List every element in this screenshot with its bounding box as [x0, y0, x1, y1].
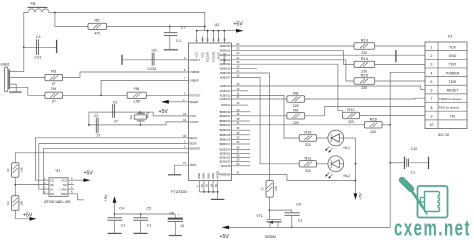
svg-text:BDBUS4: BDBUS4 — [220, 128, 231, 132]
capacitor C3 — [113, 100, 118, 123]
svg-text:ADBUS0: ADBUS0 — [220, 44, 231, 48]
node gnd bus junctions — [203, 191, 205, 193]
node C5 junction — [140, 213, 142, 215]
wire HL1 cathode — [344, 137, 356, 139]
svg-text:3: 3 — [431, 63, 433, 67]
wire C9 branch — [269, 210, 291, 213]
svg-text:220: 220 — [361, 86, 367, 90]
svg-text:9: 9 — [431, 115, 433, 119]
svg-text:C1: C1 — [36, 34, 41, 39]
wire R15 to X1 pin5 — [375, 80, 425, 82]
wire USB GND — [10, 84, 16, 92]
svg-text:R12: R12 — [347, 107, 354, 112]
wire ADBUS7 down to R11 — [235, 78, 299, 164]
resistor R12 — [343, 107, 360, 124]
node +5V vertical junction — [204, 26, 206, 28]
power +5V arrow at RESET — [159, 100, 169, 115]
svg-text:EEDATA: EEDATA — [190, 146, 201, 150]
svg-text:R9: R9 — [293, 108, 298, 113]
svg-text:ACBUS0: ACBUS0 — [220, 84, 231, 88]
wire R11 to HL2 — [317, 163, 328, 165]
ground C4 — [108, 232, 122, 234]
svg-text:C10: C10 — [411, 147, 417, 151]
svg-text:6MHz: 6MHz — [147, 111, 150, 118]
wire junction up to USBDP — [101, 80, 184, 95]
wire BCBUS1 stub — [235, 153, 250, 155]
wire bottom +5V feed — [229, 226, 391, 228]
wire BCBUS3 stub — [235, 161, 250, 163]
svg-text:IDC-10: IDC-10 — [438, 133, 449, 137]
capacitor C8 electrolytic — [168, 212, 185, 236]
svg-text:GND: GND — [197, 173, 201, 179]
svg-text:R6: R6 — [134, 86, 139, 91]
eeprom U1 93C46 — [43, 168, 74, 205]
wire R14 to X1 pin3 — [375, 63, 425, 65]
svg-text:+5V: +5V — [358, 192, 363, 199]
svg-text:ACBUS1: ACBUS1 — [220, 89, 231, 93]
node FB output junction — [54, 12, 56, 14]
wire C4 C5 C8 rail — [115, 213, 176, 215]
node C7 top junction — [169, 26, 171, 28]
node C4 junction — [114, 213, 116, 215]
wire R7 to VT1 gate — [268, 197, 270, 219]
svg-text:220: 220 — [348, 120, 354, 124]
svg-text:RSTOUT: RSTOUT — [190, 93, 201, 97]
capacitor C7 — [164, 25, 186, 50]
svg-text:BDBUS5: BDBUS5 — [220, 133, 231, 137]
wire LED cathode bus down — [354, 138, 356, 194]
svg-text:AT93C46D--8S: AT93C46D--8S — [44, 199, 71, 204]
op-amp U2 FT2232D body — [171, 22, 231, 194]
svg-text:220: 220 — [305, 169, 311, 173]
U2 right pin stubs — [231, 46, 235, 175]
svg-text:GND: GND — [206, 173, 210, 179]
wire junction to U1 pin2 — [15, 184, 49, 186]
connector USB1 — [1, 63, 11, 92]
svg-text:4: 4 — [431, 71, 433, 75]
resistor R14 — [354, 56, 375, 74]
resistor R13 — [354, 38, 375, 56]
svg-text:X1: X1 — [448, 34, 453, 39]
wire BDBUS2 stub — [235, 120, 250, 122]
resistor R7 vertical — [261, 181, 279, 198]
node PWREN junction — [355, 180, 357, 182]
ground U2 — [211, 198, 225, 200]
wire ACBUS2 down to R10 — [235, 95, 299, 138]
node crystal top junction — [139, 111, 141, 113]
svg-text:+5V: +5V — [220, 234, 230, 239]
wire U1 GND jog — [74, 194, 84, 200]
svg-text:27: 27 — [52, 100, 56, 104]
resistor R8 — [287, 91, 305, 109]
svg-text:+5V: +5V — [103, 194, 108, 201]
node VCC-C1 junction — [23, 46, 25, 48]
LED HL1 — [325, 130, 350, 153]
resistor R5 — [88, 18, 107, 36]
svg-text:1: 1 — [431, 45, 433, 49]
svg-text:R4: R4 — [51, 86, 57, 91]
wire SI/WUA stub — [235, 104, 248, 106]
pin numbers U2 left — [183, 56, 186, 165]
wire ADBUS5 stub — [235, 68, 257, 70]
ground TEST — [168, 174, 181, 176]
wire USB VCC vertical to FB — [24, 13, 28, 72]
svg-text:C7: C7 — [181, 25, 186, 30]
svg-text:VT1: VT1 — [256, 214, 262, 218]
svg-text:+5V: +5V — [84, 170, 94, 176]
wire ADBUS2 to X1 pin2 — [235, 54, 425, 56]
svg-text:GND: GND — [61, 192, 67, 196]
svg-text:BDBUS3: BDBUS3 — [220, 123, 231, 127]
wire BDBUS3 to R16 — [235, 124, 364, 126]
svg-text:BDBUS0: BDBUS0 — [220, 110, 231, 114]
svg-text:C3: C3 — [113, 100, 118, 104]
wire ADBUS4 jog to R12 — [235, 64, 342, 112]
wire ADBUS0 to R13 — [235, 45, 354, 47]
svg-text:0.1: 0.1 — [147, 224, 152, 228]
capacitor C5 — [133, 207, 152, 233]
U2 left pin stubs — [185, 60, 189, 165]
svg-text:DI: DI — [50, 188, 53, 192]
svg-text:+5V: +5V — [234, 21, 244, 27]
svg-text:TDO: TDO — [449, 63, 457, 67]
svg-text:BCBUS0: BCBUS0 — [220, 148, 231, 152]
svg-text:C8: C8 — [170, 212, 175, 216]
svg-text:2: 2 — [431, 54, 433, 58]
wire top +5V rail — [49, 13, 205, 31]
svg-text:VCC: VCC — [195, 52, 199, 58]
wire ACBUS3 to R8 — [235, 98, 287, 100]
svg-text:TMS: TMS — [449, 80, 457, 84]
svg-text:TXD(from device): TXD(from device) — [439, 97, 462, 101]
svg-text:0.1: 0.1 — [298, 219, 303, 223]
svg-text:R5: R5 — [95, 18, 100, 23]
capacitor C4 — [108, 207, 126, 233]
wire ACBUS0 to X1 pin6 RESET — [235, 86, 425, 90]
svg-text:BCBUS3: BCBUS3 — [220, 160, 231, 164]
wire BCBUS2 stub — [235, 157, 250, 159]
svg-text:ZQ1: ZQ1 — [130, 114, 133, 119]
svg-text:TEST: TEST — [190, 163, 197, 167]
svg-text:R14: R14 — [361, 56, 369, 61]
node R1 R2 junction — [14, 184, 16, 186]
svg-text:ADBUS4: ADBUS4 — [220, 62, 231, 66]
svg-text:R2: R2 — [6, 201, 10, 205]
svg-text:ADBUS2: ADBUS2 — [220, 53, 231, 57]
wire BDBUS7 stub — [235, 143, 250, 145]
wire BCBUS0 stub — [235, 149, 250, 151]
svg-text:27: 27 — [97, 134, 101, 138]
svg-text:+: + — [178, 212, 180, 216]
svg-text:ADBUS3: ADBUS3 — [220, 58, 231, 62]
wire R13 to X1 pin1 — [375, 45, 425, 47]
svg-text:ADBUS6: ADBUS6 — [220, 71, 231, 75]
svg-text:HL2: HL2 — [344, 174, 350, 178]
svg-text:C2: C2 — [94, 114, 99, 118]
svg-text:R13: R13 — [361, 38, 368, 43]
wire USB D+ to R4 — [10, 87, 45, 95]
svg-text:TCK: TCK — [449, 45, 457, 49]
svg-text:FB: FB — [31, 1, 36, 6]
wire U2 top +5V rail — [197, 30, 237, 32]
wire R8 to X1 pin7 TXD — [305, 97, 425, 100]
wire R5 to +5V node — [107, 25, 205, 27]
connector X1 — [425, 34, 467, 138]
power +5V arrow top — [234, 21, 244, 32]
capacitor C2 — [94, 114, 101, 137]
capacitor C9 — [285, 202, 303, 227]
svg-text:0.1: 0.1 — [176, 39, 181, 43]
svg-text:220: 220 — [305, 143, 311, 147]
svg-text:+5V: +5V — [23, 213, 33, 219]
svg-text:SI/WUA: SI/WUA — [221, 103, 231, 107]
capacitor C10 — [390, 147, 428, 174]
svg-text:VCC: VCC — [201, 52, 205, 58]
resistor R6 — [127, 86, 146, 104]
svg-text:USB1: USB1 — [1, 63, 10, 67]
svg-text:+5V: +5V — [159, 109, 169, 115]
svg-text:10: 10 — [430, 123, 434, 127]
svg-text:POWER: POWER — [446, 71, 460, 75]
pin labels U2 left inside — [190, 58, 201, 167]
svg-text:TDI: TDI — [450, 115, 456, 119]
svg-text:R7: R7 — [261, 186, 265, 190]
wire BDBUS0 stub — [235, 111, 250, 113]
wire ACBUS1 stub — [235, 90, 248, 92]
svg-text:1.5K: 1.5K — [274, 186, 278, 192]
resistor R16 — [364, 117, 382, 134]
svg-text:5: 5 — [431, 80, 433, 84]
svg-text:SI/WUB: SI/WUB — [221, 164, 231, 168]
svg-text:C5: C5 — [147, 207, 152, 211]
wire EESK bus — [39, 144, 185, 190]
wire R6 to RSTOUT — [146, 94, 184, 96]
wire XTOUT row — [89, 122, 185, 125]
svg-text:SK: SK — [50, 183, 54, 187]
svg-text:BSS84: BSS84 — [265, 235, 276, 239]
capacitor C1 — [24, 34, 57, 60]
node crystal bottom junction — [139, 124, 141, 126]
node VT1 gate junction — [269, 209, 271, 211]
node R16 power junction — [389, 124, 391, 126]
wire R3 to USBDM — [63, 72, 185, 78]
svg-text:BDBUS6: BDBUS6 — [220, 137, 231, 141]
wire R2 to +5V arrow — [15, 210, 30, 219]
svg-text:8: 8 — [431, 106, 433, 110]
svg-text:220: 220 — [293, 121, 299, 125]
wire R4 to R6 — [63, 94, 128, 96]
ferrite bead FB label — [28, 1, 48, 7]
crystal ZQ1 — [130, 111, 150, 125]
wire R1 to R2 — [14, 177, 16, 196]
wire USB VCC — [10, 71, 24, 73]
svg-text:R10: R10 — [304, 130, 312, 135]
svg-text:VCCIOB: VCCIOB — [211, 52, 215, 63]
svg-text:R16: R16 — [370, 117, 377, 122]
svg-text:BDBUS2: BDBUS2 — [220, 119, 231, 123]
svg-text:CS: CS — [50, 179, 54, 183]
svg-text:ADBUS7: ADBUS7 — [220, 76, 231, 80]
node VCC stub junctions — [196, 30, 198, 32]
power +5V arrow right — [23, 213, 37, 221]
svg-text:C4: C4 — [119, 207, 124, 211]
svg-text:1.5K: 1.5K — [133, 100, 141, 104]
svg-text:C6: C6 — [152, 47, 157, 52]
wire ADBUS3 jog to R15 — [235, 60, 354, 81]
svg-text:EESK: EESK — [190, 142, 197, 146]
svg-text:0.01: 0.01 — [35, 56, 42, 60]
svg-text:BCBUS1: BCBUS1 — [220, 152, 231, 156]
power +5V arrow down — [354, 192, 363, 200]
svg-text:cxem.net: cxem.net — [394, 216, 471, 239]
ground C5 — [134, 232, 148, 234]
svg-text:RESET: RESET — [447, 89, 460, 93]
svg-text:6: 6 — [431, 89, 433, 93]
wire USB D- to R3 — [10, 77, 45, 79]
svg-text:NC: NC — [63, 183, 67, 187]
ground C8 — [169, 235, 182, 237]
svg-text:R11: R11 — [304, 156, 311, 161]
svg-text:R3: R3 — [51, 68, 56, 73]
transistor VT1 BSS84 — [256, 214, 281, 239]
svg-text:0.1: 0.1 — [411, 170, 416, 174]
wire EEDATA bus — [43, 148, 184, 194]
svg-text:7: 7 — [431, 97, 433, 101]
svg-text:0.033: 0.033 — [148, 67, 157, 71]
svg-text:RXD (to device): RXD (to device) — [439, 106, 459, 110]
wire branch down to R5 — [55, 13, 88, 27]
wire BDBUS1 to R9 — [235, 115, 287, 117]
power +5V arrow up C4 rail — [103, 194, 116, 214]
pin numbers U2 bottom — [196, 184, 218, 187]
node C10 junction — [389, 162, 391, 164]
wire SI/WUB stub — [235, 165, 250, 167]
svg-text:DO: DO — [50, 192, 54, 196]
U2 bottom GND stubs — [199, 181, 217, 192]
svg-text:XTIN: XTIN — [190, 114, 196, 118]
svg-text:R15: R15 — [361, 73, 368, 78]
capacitor C6 — [122, 47, 156, 71]
resistor R3 — [45, 68, 63, 86]
wire R1 pullup bus — [15, 153, 184, 163]
resistor R15 — [354, 73, 375, 91]
svg-text:ADBUS1: ADBUS1 — [220, 49, 231, 53]
svg-text:XTOUT: XTOUT — [190, 120, 199, 124]
svg-text:EECS: EECS — [190, 136, 198, 140]
pin labels U2 bottom inside — [197, 171, 219, 179]
wire R12 to X1 pin9 TDI — [360, 115, 426, 117]
wire X1 POWER riser — [390, 72, 425, 227]
wire PWREN jog — [235, 175, 355, 181]
wire R9 to X1 pin8 RXD — [305, 107, 425, 116]
svg-text:ORG: ORG — [61, 188, 67, 192]
resistor R2 vertical — [6, 196, 23, 211]
node C9 bottom junction — [291, 227, 293, 229]
wire R10 to HL1 — [317, 137, 328, 139]
svg-text:470: 470 — [94, 32, 100, 36]
ferrite bead FB coil — [28, 9, 49, 13]
wire U2 bottom gnd bus — [199, 192, 217, 199]
wire R16 to POWER riser — [382, 124, 390, 126]
power +5V arrow U1 — [74, 170, 93, 182]
wire XTIN row — [89, 112, 185, 116]
svg-text:R1: R1 — [6, 168, 10, 172]
wire EECS bus — [35, 138, 184, 180]
svg-text:ACBUS3: ACBUS3 — [220, 97, 231, 101]
pin numbers U2 right — [236, 42, 239, 175]
svg-text:U1: U1 — [56, 168, 61, 173]
ground USB — [9, 91, 22, 93]
svg-text:BDBUS7: BDBUS7 — [220, 142, 231, 146]
svg-text:10K: 10K — [20, 201, 24, 206]
svg-text:GND: GND — [211, 173, 215, 179]
ground C7 — [164, 49, 178, 51]
ground bar GND row — [395, 50, 397, 62]
svg-text:BDBUS1: BDBUS1 — [220, 114, 231, 118]
resistor R10 — [299, 130, 316, 148]
svg-text:BCBUS2: BCBUS2 — [220, 156, 231, 160]
svg-text:R8: R8 — [293, 91, 298, 96]
pin labels U2 right inside — [219, 44, 231, 177]
svg-text:2.2K: 2.2K — [20, 167, 24, 173]
svg-text:220: 220 — [361, 51, 367, 55]
svg-text:FT2232D: FT2232D — [171, 189, 187, 194]
wire TEST to ground — [174, 165, 184, 174]
svg-text:GND: GND — [202, 173, 206, 179]
svg-text:VCCIOA: VCCIOA — [206, 52, 210, 63]
wire ADBUS6 down to R7 — [235, 73, 269, 181]
svg-text:HL1: HL1 — [344, 146, 350, 150]
svg-text:220: 220 — [370, 130, 376, 134]
svg-text:27: 27 — [114, 120, 118, 124]
node XTOUT left junction — [88, 124, 90, 126]
wire BDBUS5 stub — [235, 134, 250, 136]
LED HL2 — [325, 156, 350, 178]
svg-text:RESET: RESET — [190, 100, 199, 104]
svg-text:10: 10 — [180, 224, 184, 228]
resistor R4 — [45, 86, 63, 104]
svg-text:ADBUS5: ADBUS5 — [220, 67, 231, 71]
svg-text:U2: U2 — [215, 22, 220, 27]
resistor R11 — [299, 156, 316, 174]
wire crystal left vertical — [88, 112, 90, 125]
wire ADBUS1 jog to R14 — [235, 51, 354, 65]
node USBDP branch junction — [100, 94, 102, 96]
wire U2 VCC stubs — [197, 31, 225, 43]
svg-text:USBDM: USBDM — [190, 70, 200, 74]
pin labels U2 top inside — [195, 52, 227, 64]
wire 3V3OUT row — [122, 59, 185, 61]
svg-text:C9: C9 — [296, 202, 301, 206]
watermark cxem.net logo — [402, 180, 448, 218]
svg-text:0.1: 0.1 — [121, 224, 126, 228]
node HL2 junction — [355, 163, 357, 165]
resistor R9 — [287, 108, 305, 126]
svg-text:PWREN#: PWREN# — [219, 173, 231, 177]
wire BDBUS4 stub — [235, 129, 250, 131]
resistor R1 vertical — [6, 163, 23, 178]
svg-text:3V3OUT: 3V3OUT — [190, 58, 201, 62]
svg-text:USBDP: USBDP — [190, 78, 199, 82]
power +5V arrow bottom — [220, 226, 230, 240]
svg-text:ACBUS2: ACBUS2 — [220, 93, 231, 97]
wire RESET +5V arrow — [169, 101, 185, 103]
wire BDBUS6 stub — [235, 138, 250, 140]
svg-text:GND: GND — [449, 54, 457, 58]
pin numbers U2 top — [195, 38, 227, 41]
svg-text:VCC: VCC — [61, 179, 67, 183]
